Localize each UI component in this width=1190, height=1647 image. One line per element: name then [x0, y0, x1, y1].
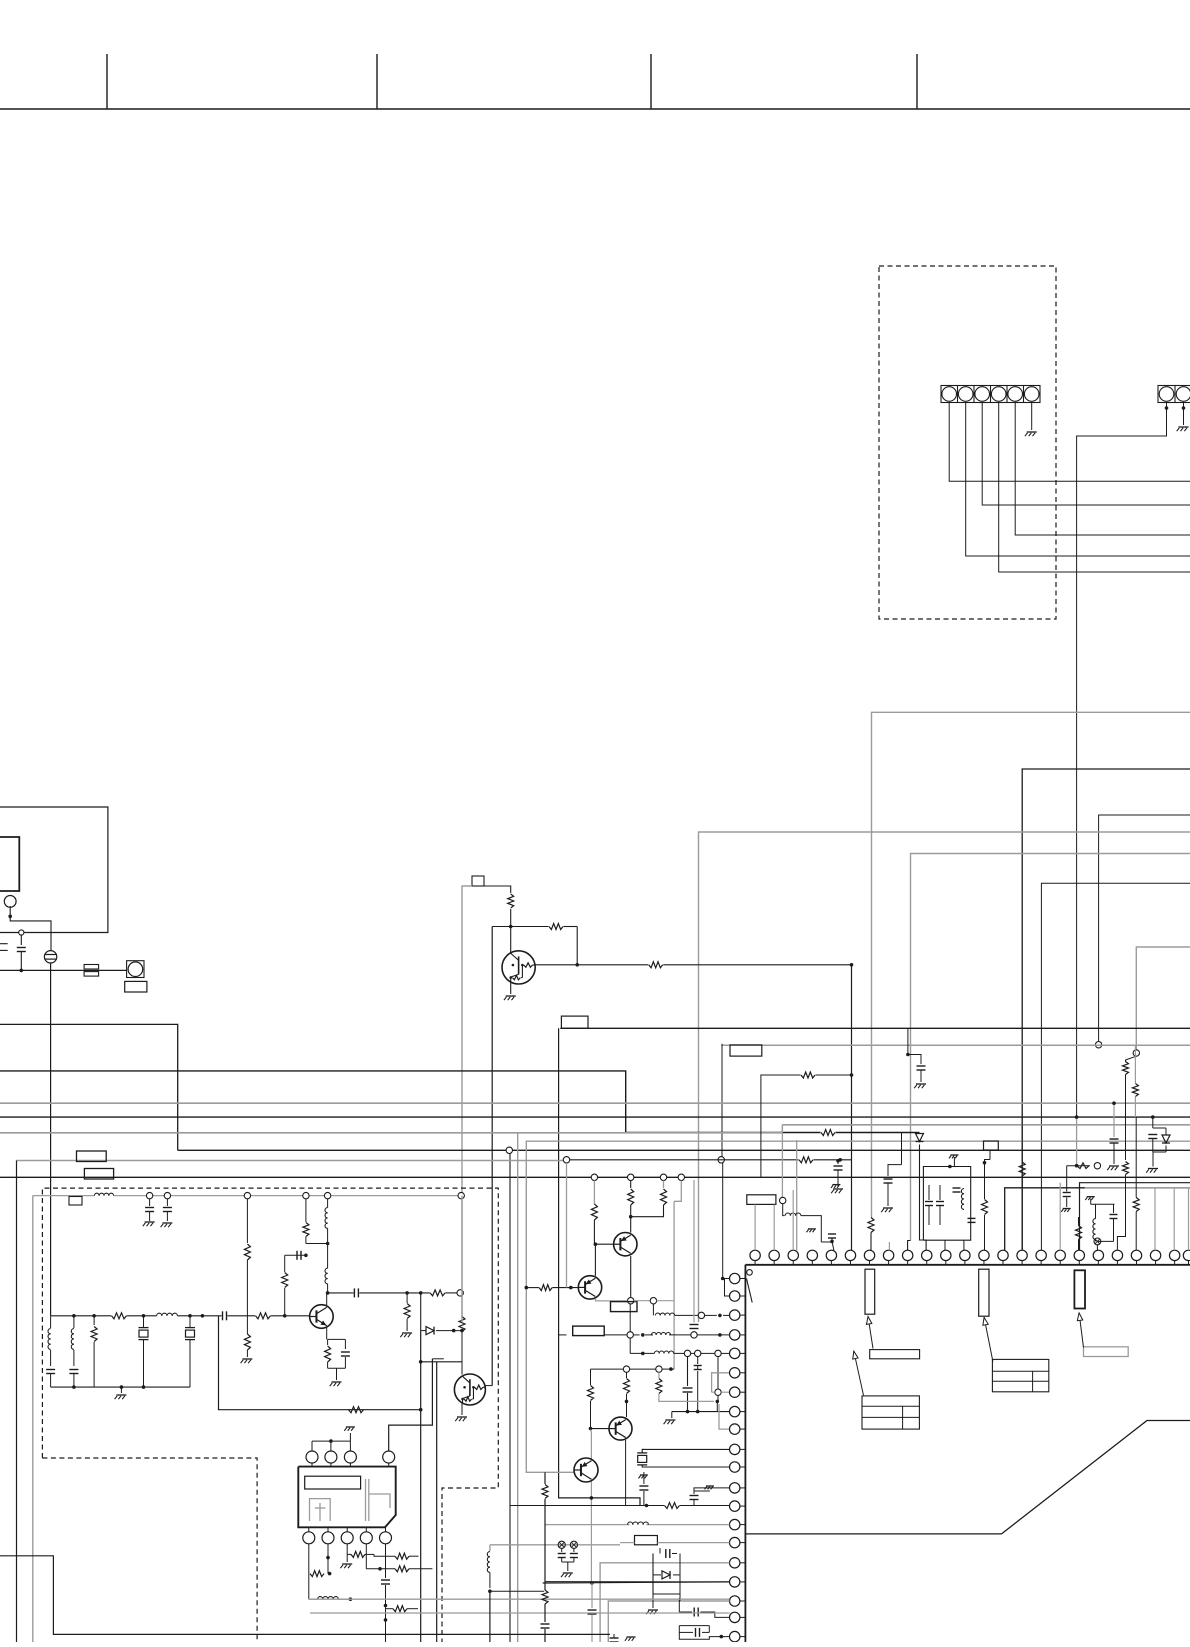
- wire: [1067, 1165, 1090, 1167]
- node: [650, 1298, 656, 1304]
- ground sm: [640, 1474, 648, 1476]
- wire CN1 pin fan 1: [949, 403, 1190, 482]
- dark y1182 L: [1080, 1183, 1190, 1251]
- grey x1155 pin: [1154, 1188, 1156, 1251]
- cap low: [968, 1217, 976, 1219]
- wire gnd join: [1153, 1151, 1166, 1153]
- wire: [645, 1334, 653, 1336]
- wire CN1 pin fan 5: [999, 403, 1190, 573]
- wire: [489, 1573, 491, 1589]
- junction dot: [1151, 1115, 1155, 1119]
- junction dot: [419, 1291, 423, 1295]
- motor M circle: [4, 896, 16, 908]
- junction dot: [721, 1277, 725, 1281]
- wire main y970: [0, 969, 127, 971]
- wire module right up: [432, 1358, 443, 1360]
- wire CN2 pin1 to bus: [1077, 403, 1167, 1118]
- node bus1177b: [628, 1174, 634, 1180]
- node C end: [1095, 1042, 1101, 1048]
- border zone tick: [916, 54, 918, 109]
- module cap sym2: [365, 1479, 367, 1521]
- junction dot: [641, 1333, 645, 1337]
- cap leg: [166, 1199, 168, 1206]
- label box small: [69, 1197, 82, 1206]
- bottom glyphs: [610, 1637, 619, 1639]
- ground: [1063, 1208, 1071, 1210]
- wire: [831, 1238, 833, 1241]
- transistor Q1: [502, 951, 535, 984]
- junction dot: [188, 1314, 192, 1318]
- wire split: [1153, 1127, 1166, 1129]
- resistor R (horiz): [665, 1503, 680, 1509]
- resistor R (vert): [303, 1223, 309, 1237]
- node out: [457, 1290, 463, 1296]
- label box on bus: [561, 1016, 588, 1028]
- wire pin2 tie: [723, 1279, 730, 1297]
- rail top y1196: [33, 1195, 95, 1197]
- inductor L (horiz): [157, 1313, 162, 1316]
- ground Q1: [506, 995, 516, 997]
- wire: [701, 1352, 715, 1354]
- wire pin9 grey: [719, 1404, 730, 1429]
- wire: [305, 1199, 307, 1222]
- node: [656, 1366, 662, 1372]
- grey L x608: [608, 1601, 729, 1642]
- junction dot: [830, 1240, 834, 1244]
- bus y1103 grey: [0, 1102, 1190, 1104]
- gnd pin3: [346, 1554, 348, 1562]
- capacitor C: [20, 935, 22, 945]
- wire loop: [308, 1574, 310, 1600]
- ground CN2 pin2: [1179, 426, 1189, 428]
- vertical x492: [491, 927, 493, 1386]
- junction dot: [1075, 1164, 1079, 1168]
- capacitor C: [828, 1233, 836, 1235]
- node: [623, 1366, 629, 1372]
- wire pin4 down: [365, 1544, 367, 1569]
- node bus1177c: [660, 1174, 666, 1180]
- wire Q5 base: [526, 1287, 539, 1289]
- vertical x1004: [1005, 1188, 1190, 1251]
- junction dot: [696, 1410, 700, 1414]
- wire: [1090, 1199, 1092, 1205]
- wire pin stub: [723, 1314, 729, 1316]
- inductor L (horiz): [628, 1522, 633, 1525]
- junction dot: [720, 1635, 724, 1639]
- resistor R (horiz): [801, 1072, 815, 1078]
- resistor R (vert): [542, 1590, 548, 1604]
- grey corner x517: [517, 1132, 519, 1642]
- label box: [730, 1045, 762, 1056]
- wire: [920, 1145, 927, 1251]
- junction dot: [716, 1400, 720, 1404]
- resistor R (horiz): [351, 1551, 365, 1557]
- resistor R (horiz): [393, 1606, 407, 1612]
- transistor Q3: [454, 1374, 485, 1405]
- transistor Q6: [609, 1417, 632, 1440]
- junction dot: [1075, 1115, 1079, 1119]
- wire net G (y947): [1136, 947, 1190, 1050]
- junction dot: [326, 1291, 330, 1295]
- node: [563, 1157, 569, 1163]
- wire: [801, 1216, 821, 1242]
- ground sm2: [832, 1184, 840, 1186]
- label box: [984, 1141, 999, 1150]
- wire: [716, 1401, 718, 1411]
- capacitor C: [222, 1311, 224, 1320]
- cap+gnd x1066: [1063, 1192, 1071, 1194]
- ground: [916, 1083, 926, 1085]
- label box: [747, 1195, 776, 1205]
- ground: [242, 1358, 252, 1360]
- junction dot: [72, 1385, 76, 1389]
- junction dot: [838, 1158, 842, 1162]
- wire: [630, 1181, 632, 1189]
- ground sm: [706, 1485, 714, 1487]
- wire: [1117, 1175, 1125, 1251]
- junction dot: [120, 1385, 124, 1389]
- wire drop from fuse: [50, 963, 52, 1316]
- IC internal block: [1074, 1270, 1085, 1308]
- wire jog to pin: [908, 1241, 911, 1251]
- junction dot: [594, 1242, 598, 1246]
- wire: [374, 1554, 395, 1556]
- junction dot: [142, 1314, 146, 1318]
- wire gnd up: [349, 1433, 351, 1441]
- coil loop: [318, 1597, 323, 1600]
- leg L+C: [50, 1316, 52, 1328]
- transistor Q7: [574, 1458, 598, 1482]
- wire Q7 emitter: [590, 1482, 592, 1584]
- wire: [761, 1075, 801, 1178]
- wire: [630, 1368, 656, 1370]
- vertical x851: [851, 965, 853, 1251]
- diode D: [1162, 1135, 1170, 1143]
- resistor R (vert): [508, 894, 514, 908]
- coil2: [325, 1268, 328, 1273]
- wire: [461, 1331, 463, 1375]
- vertical x461 into Q3: [461, 1199, 463, 1317]
- wire Q7 collector: [590, 1430, 593, 1459]
- junction dot: [906, 1053, 910, 1057]
- bus y1025 left seg: [0, 1024, 178, 1150]
- label box: [635, 1536, 658, 1545]
- arrow: [854, 1351, 864, 1395]
- node: [691, 1332, 697, 1338]
- junction dot: [92, 1314, 96, 1318]
- node: [780, 1197, 786, 1203]
- bus y1150: [178, 1149, 1190, 1151]
- wire Q2 emitter: [326, 1327, 328, 1339]
- node: [627, 1332, 633, 1338]
- wire Q4 emitter: [630, 1256, 632, 1298]
- ground: [332, 1381, 342, 1383]
- R chain x626: [626, 1372, 628, 1378]
- junction dot: [283, 1314, 287, 1318]
- wire x630 down: [629, 1338, 631, 1353]
- cap loop: [659, 1548, 661, 1554]
- wire pin line: [510, 1505, 664, 1507]
- wire: [284, 1288, 286, 1316]
- wire: [1152, 1117, 1154, 1128]
- inductor L (horiz): [655, 1313, 660, 1315]
- IC internal block: [979, 1269, 989, 1316]
- node on bus1150: [506, 1147, 512, 1153]
- wire top pins: [311, 1441, 313, 1451]
- junction dot: [8, 915, 12, 919]
- vertical x16 drop: [16, 1161, 18, 1643]
- ground sm: [808, 1228, 816, 1230]
- junction dot: [850, 963, 854, 967]
- leg R: [93, 1316, 95, 1325]
- junction dot: [349, 1597, 353, 1601]
- vertical x796 grey: [796, 1140, 798, 1250]
- wire grey x674: [673, 1201, 675, 1369]
- junction dot: [948, 1165, 952, 1169]
- wire Q1 emitter: [510, 982, 512, 994]
- junction dot: [488, 1589, 492, 1593]
- junction dot: [589, 1427, 593, 1431]
- vertical x782 grey: [781, 1125, 783, 1197]
- wire: [642, 1465, 729, 1467]
- diode D (zener): [916, 1134, 924, 1142]
- diode loop: [653, 1554, 660, 1595]
- bus y1046 grey: [721, 1044, 1190, 1046]
- wire link: [219, 1316, 421, 1410]
- wire: [366, 1568, 395, 1570]
- wire Q1 out: [535, 964, 648, 966]
- wire pin3 down: [346, 1544, 348, 1555]
- CN2 pin1 dot: [1165, 406, 1169, 410]
- dark x544 chain: [544, 1472, 546, 1484]
- wire coil to pin: [652, 1304, 654, 1316]
- module window: [305, 1476, 361, 1489]
- junction dot: [509, 925, 513, 929]
- cap drop x592: [591, 1583, 593, 1608]
- transistor Q4: [614, 1233, 637, 1256]
- wire: [642, 1449, 729, 1453]
- coil v: [1093, 1219, 1096, 1224]
- junction dot: [72, 1314, 76, 1318]
- IC label table: [862, 1396, 919, 1429]
- jumper plates: [84, 965, 99, 970]
- junction dot: [590, 1581, 594, 1585]
- wire: [985, 1160, 991, 1200]
- inductor L (vert): [325, 1208, 328, 1213]
- junction dot: [1112, 1101, 1116, 1105]
- wire: [385, 1585, 387, 1642]
- R v: [1076, 1226, 1082, 1240]
- wire: [1096, 1245, 1098, 1251]
- wire: [633, 1334, 639, 1336]
- arrow: [868, 1317, 873, 1349]
- R chain x658: [658, 1372, 660, 1378]
- junction dot: [419, 1408, 423, 1412]
- wire Q6 base: [591, 1428, 610, 1430]
- inductor L (horiz): [651, 1333, 656, 1335]
- module bottom stubs: [308, 1527, 310, 1532]
- border zone tick: [650, 54, 652, 109]
- capacitor C: [884, 1178, 893, 1180]
- junction dot: [590, 1496, 594, 1500]
- ground: [120, 1387, 122, 1393]
- wire: [305, 1237, 307, 1244]
- capacitor C: [296, 1251, 298, 1260]
- bus y1071 + jog: [0, 1071, 821, 1133]
- wire CN1 pin6 gnd stub: [1031, 403, 1033, 431]
- wire net B (y769): [1022, 769, 1190, 1250]
- vertical x463 grey: [461, 1196, 463, 1322]
- resistor R (vert): [244, 1334, 250, 1350]
- cap stub: [888, 1165, 902, 1176]
- wire: [671, 1412, 673, 1418]
- IC top edge: [745, 1264, 1190, 1266]
- dashed box RF bottom: [42, 1458, 257, 1642]
- wire: [1126, 1056, 1137, 1062]
- wire CN2 pin2 gnd stub: [1183, 403, 1185, 426]
- corner x436: [436, 1362, 438, 1642]
- wire y1353 net: [630, 1352, 654, 1354]
- grey y1545: [490, 1544, 620, 1546]
- cap: [381, 1579, 390, 1581]
- ground: [833, 1188, 843, 1190]
- resistor R (horiz): [821, 1130, 835, 1136]
- transistor Q5: [578, 1276, 601, 1299]
- wire pinstub: [832, 1241, 834, 1250]
- node rail: [146, 1192, 152, 1198]
- wire Q3 gnd: [461, 1404, 463, 1416]
- resistor R (vert): [1123, 1162, 1129, 1175]
- wire: [705, 1314, 717, 1316]
- junction dot: [460, 1329, 464, 1333]
- wire Q5 emitter: [595, 1299, 627, 1301]
- wire grey x681: [674, 1181, 681, 1202]
- cap chain x687: [687, 1357, 689, 1386]
- junction dot: [384, 1618, 388, 1622]
- wire: [697, 1334, 729, 1336]
- arrow: [984, 1317, 993, 1361]
- wire: [544, 1604, 546, 1622]
- junction dot: [419, 1360, 423, 1364]
- wire cap branch: [285, 1254, 306, 1256]
- junction dot: [718, 1314, 722, 1318]
- wire: [246, 1199, 248, 1243]
- jack J circle-in-square: [127, 961, 144, 978]
- wire lblline: [620, 1542, 635, 1544]
- junction dot: [645, 1504, 649, 1508]
- wire net E (y853): [911, 854, 1190, 1241]
- ground: [1148, 1168, 1158, 1170]
- R v x1136: [1133, 1198, 1139, 1212]
- ground up: [346, 1426, 355, 1428]
- grey corner x526: [526, 1141, 1190, 1472]
- step wire bottom: [0, 1556, 610, 1635]
- wire: [984, 1215, 986, 1250]
- wire: [576, 927, 578, 965]
- node bus1177d: [678, 1174, 684, 1180]
- caps under circx: [561, 1548, 563, 1552]
- resistor R (vert): [1123, 1062, 1129, 1075]
- coil v x489: [487, 1552, 490, 1557]
- vertical x908: [907, 1028, 909, 1054]
- wire: [631, 1205, 664, 1217]
- wire box left drop: [462, 886, 472, 1196]
- resistor R (horiz)2: [395, 1566, 409, 1572]
- resistor R (horiz): [1077, 1163, 1089, 1169]
- transistor Q2: [310, 1305, 334, 1329]
- wire: [887, 1183, 889, 1206]
- junction dot: [669, 1367, 673, 1371]
- wire pin4 up: [389, 1359, 433, 1451]
- wire: [901, 1133, 903, 1165]
- wire CN1 pin fan 4: [966, 403, 1190, 557]
- ground: [563, 1572, 573, 1574]
- junction dot: [569, 1286, 573, 1290]
- caps in box: [925, 1201, 933, 1203]
- wire x722 up: [722, 1163, 724, 1279]
- wire collector out: [328, 1292, 354, 1294]
- IC left edge: [744, 1265, 746, 1642]
- wire osc left: [642, 1448, 644, 1450]
- wire: [675, 1314, 699, 1316]
- wire y1591 right: [490, 1590, 544, 1592]
- label box Q2: [573, 1326, 605, 1336]
- cap pin: [693, 1608, 695, 1617]
- wire base rail: [492, 926, 548, 928]
- ground: [648, 1609, 658, 1611]
- IC pin1 mark: [747, 1270, 753, 1276]
- wire: [1125, 1075, 1127, 1161]
- IC label box grey: [1084, 1347, 1129, 1357]
- pin stubs misc: [773, 1205, 775, 1251]
- bus y1117: [0, 1116, 1190, 1118]
- capacitor C: [917, 1065, 926, 1067]
- resistor R (horiz): [310, 1571, 324, 1577]
- inductor L (horiz): [785, 1213, 790, 1216]
- junction dot: [326, 1242, 330, 1246]
- label box: [472, 876, 484, 886]
- node rail end: [458, 1192, 464, 1198]
- border zone tick: [376, 54, 378, 109]
- wire x718 down: [717, 1357, 719, 1402]
- coil v: [961, 1189, 964, 1194]
- stub marks at edge: [0, 943, 8, 945]
- circx pair: [558, 1541, 565, 1548]
- vertical x420 low: [420, 1331, 422, 1642]
- wire pins12 tie: [723, 1278, 730, 1280]
- wire lbl line: [559, 1334, 567, 1336]
- wire: [561, 1558, 563, 1562]
- leg crystal: [189, 1316, 191, 1327]
- junction dot: [326, 1556, 330, 1560]
- cap x1114: [1113, 1103, 1115, 1137]
- CN2 pin2 dot: [1182, 406, 1186, 410]
- wire: [920, 1070, 922, 1082]
- wire net D (y832): [699, 832, 1190, 1322]
- wire: [660, 1593, 680, 1595]
- cap: [953, 1187, 961, 1189]
- wire box right: [484, 886, 511, 893]
- bus y1160 grey: [17, 1160, 567, 1162]
- bus y1125 grey right: [782, 1124, 1190, 1126]
- wire: [662, 1368, 674, 1370]
- wire: [593, 1181, 595, 1205]
- wire pin5 down: [385, 1544, 387, 1578]
- wire lbl line2: [604, 1334, 627, 1336]
- IC top pin circles: [750, 1250, 760, 1260]
- resistor R (horiz): [395, 1553, 409, 1559]
- node: [684, 1350, 690, 1356]
